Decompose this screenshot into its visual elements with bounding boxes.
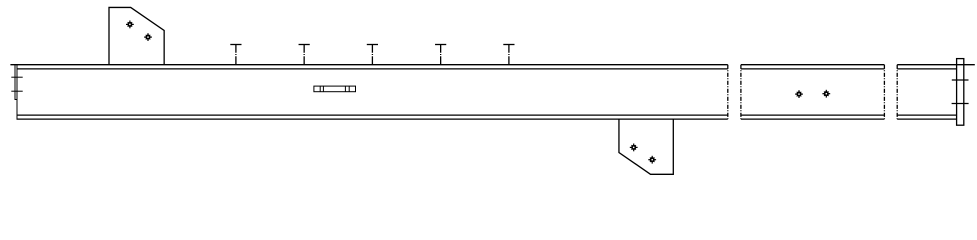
shear stud S5 stem — [508, 45, 510, 65]
beam B2 bottom flange outer line — [741, 118, 885, 120]
beam B3 top flange inner line — [897, 68, 956, 70]
bottom gusset plate outline — [619, 119, 673, 174]
beam B2 web bolt 1 — [795, 90, 803, 98]
beam B1 bottom flange inner line — [17, 114, 728, 116]
shear stud S3 head — [367, 44, 378, 46]
shear stud S1 head — [230, 44, 241, 46]
beam B2 web bolt 2 — [822, 90, 830, 98]
shear stud S4 head — [435, 44, 446, 46]
beam B2 right match line (dash-dot) — [883, 65, 885, 119]
shear stud S4 stem — [440, 45, 442, 65]
beam B1 top flange inner line — [17, 68, 728, 70]
beam B2 top flange outer line — [741, 64, 885, 66]
beam B3 bottom flange outer line — [897, 118, 956, 120]
beam B3 left match line (dash-dot) — [896, 65, 898, 119]
beam B2 top flange inner line — [741, 68, 885, 70]
shear stud S3 stem — [371, 45, 373, 65]
left end plate bolt tick 2 — [11, 90, 22, 92]
bottom gusset bolt 2 — [648, 156, 656, 164]
shear stud S2 stem — [303, 45, 305, 65]
beam B1 left end vertical edge — [16, 64, 18, 119]
right end plate bolt tick 2 — [952, 103, 969, 105]
bottom gusset bolt 1 — [630, 144, 638, 152]
beam B2 bottom flange inner line — [741, 114, 885, 116]
beam B1 top flange outer line — [10, 64, 727, 66]
right end plate bolt tick 1 — [952, 79, 969, 81]
beam B1 right end match line (dash-dot) — [727, 65, 729, 119]
shear stud S5 head — [503, 44, 514, 46]
web slot divider 1 — [319, 86, 321, 92]
shear stud S2 head — [299, 44, 310, 46]
web slot divider 3 — [344, 86, 346, 92]
top gusset bolt 2 — [144, 33, 152, 41]
top gusset plate outline — [109, 7, 164, 64]
beam B3 bottom flange inner line — [897, 114, 956, 116]
right end plate outline — [957, 59, 964, 126]
shear stud S1 stem — [235, 45, 237, 65]
top gusset bolt 1 — [126, 21, 134, 29]
left end plate face line — [15, 64, 17, 99]
beam B3 top flange outer line — [897, 64, 975, 66]
left end plate bolt tick 1 — [11, 76, 22, 78]
beam B1 bottom flange outer line — [17, 118, 728, 120]
beam B2 left match line (dash-dot) — [740, 65, 742, 119]
web slot divider 4 — [348, 86, 350, 92]
web slot divider 2 — [322, 86, 324, 92]
web slot detail outline — [314, 86, 356, 92]
